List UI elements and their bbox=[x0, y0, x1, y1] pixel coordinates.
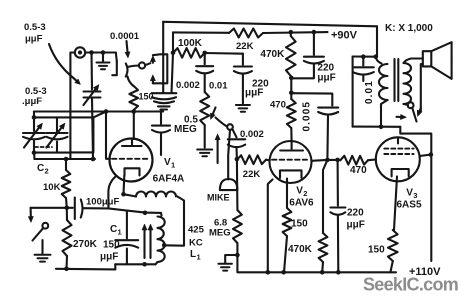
notch to grid bus bbox=[93, 112, 106, 118]
node dot primary bottom bbox=[379, 125, 384, 130]
label 220 (V2 out) bbox=[347, 208, 364, 219]
label 22K (V2 grid) bbox=[243, 169, 261, 180]
rail B drop to 100K bbox=[172, 32, 174, 52]
capacitor 220uuF (V2 out) bbox=[330, 160, 345, 272]
mike annotation arrow bbox=[215, 134, 220, 163]
trimmer arrow 2 bbox=[150, 75, 155, 84]
svg-text:MEG: MEG bbox=[174, 124, 197, 135]
svg-text:1: 1 bbox=[118, 228, 122, 237]
node dot grid bus left bbox=[104, 109, 109, 114]
svg-text:470K: 470K bbox=[260, 49, 285, 60]
xfmr core bbox=[395, 59, 399, 101]
svg-text:150: 150 bbox=[291, 219, 308, 230]
label uuF (decoup) bbox=[317, 73, 335, 84]
rail y111 (grid bus) bbox=[34, 110, 163, 112]
key jack ground bbox=[35, 240, 51, 262]
resistor 270K bbox=[63, 208, 72, 269]
capacitor 220uuF (decoup) bbox=[291, 32, 324, 78]
node dot tank bottom bbox=[142, 262, 147, 267]
label 425 bbox=[188, 225, 205, 236]
wire between out dots bbox=[327, 159, 337, 161]
speaker return wire bbox=[421, 64, 423, 112]
capacitor 100uuF bbox=[67, 198, 109, 220]
resistor 22K (V2 grid) bbox=[237, 155, 270, 164]
main ground rail bbox=[237, 255, 396, 272]
node dot on C2 rail 2 bbox=[91, 157, 96, 162]
label 6.8 bbox=[214, 218, 227, 229]
B+ feed wire bbox=[400, 127, 431, 261]
svg-text:470: 470 bbox=[270, 100, 286, 111]
svg-text:0.0001: 0.0001 bbox=[110, 31, 140, 42]
capacitor 0.005 bbox=[291, 93, 338, 160]
watermark SeekIC.com bbox=[363, 275, 458, 295]
resistor 150 (V2) bbox=[283, 179, 292, 273]
V3 grid dashes row2 bbox=[384, 153, 413, 155]
resistor 150 (V3) bbox=[388, 230, 398, 272]
V1 plate lead bbox=[133, 112, 135, 140]
node dot 270K top bbox=[65, 206, 70, 211]
L1 tap wire bbox=[164, 197, 184, 246]
resistor 470 (V2 plate) bbox=[287, 93, 296, 142]
variable capacitor 0.5-3 arrow bbox=[84, 85, 100, 106]
variable capacitor 0.5-3 top lead bbox=[90, 53, 93, 90]
svg-text:V: V bbox=[296, 186, 303, 197]
node dot V3 plate bbox=[429, 152, 434, 157]
label 10K bbox=[43, 182, 61, 193]
svg-text:μμF: μμF bbox=[317, 73, 335, 84]
label K: X 1,000 bbox=[385, 23, 433, 34]
label 470 (V3 grid) bbox=[350, 165, 367, 176]
key jack arm bbox=[28, 208, 33, 223]
label MIKE bbox=[207, 193, 230, 203]
rail B right bbox=[263, 31, 328, 34]
wire jack to node bbox=[85, 51, 116, 53]
V3 cathode lead bbox=[394, 176, 397, 230]
svg-text:0.01: 0.01 bbox=[209, 81, 228, 92]
resistor 470K (V2 out) bbox=[319, 160, 328, 272]
svg-text:100μμF: 100μμF bbox=[86, 197, 119, 208]
node dot xfmr 2 bbox=[374, 54, 379, 59]
terminal circle bbox=[139, 62, 145, 68]
node dot 0.005 branch bbox=[289, 91, 294, 96]
node dot C2 top bbox=[32, 115, 37, 120]
label C2 bbox=[37, 163, 49, 176]
label 220 (screen) bbox=[252, 79, 269, 90]
node dot diode return bbox=[266, 270, 271, 275]
label 270K bbox=[73, 239, 98, 250]
capacitor 0.01 (output) bbox=[353, 57, 374, 81]
label +110V bbox=[409, 266, 441, 278]
node dot V2 out 2 bbox=[335, 158, 340, 163]
transformer top wire bbox=[353, 55, 376, 57]
C2 top wire bbox=[34, 116, 70, 118]
label 0.002 (osc) bbox=[176, 80, 200, 91]
svg-text:C: C bbox=[110, 224, 117, 235]
svg-text:1: 1 bbox=[171, 161, 175, 170]
switch contact circle bbox=[404, 102, 414, 108]
svg-text:2: 2 bbox=[45, 167, 49, 176]
label 470K (V2 out) bbox=[288, 244, 313, 255]
svg-text:MEG: MEG bbox=[209, 228, 231, 239]
V1 grid dashes bbox=[112, 158, 148, 160]
label MEG (6.8) bbox=[209, 228, 231, 239]
svg-text:L: L bbox=[190, 249, 196, 260]
microphone wire bbox=[228, 130, 230, 180]
node dot on C2 rail 1 bbox=[64, 157, 69, 162]
label V1 bbox=[164, 157, 175, 170]
core arrow 1 bbox=[142, 224, 147, 258]
node dot L1 tap bbox=[162, 243, 167, 248]
inner box bbox=[70, 117, 93, 152]
tube V3 envelope bbox=[376, 137, 420, 181]
svg-text:+90V: +90V bbox=[331, 30, 358, 42]
speaker bbox=[423, 42, 452, 79]
svg-text:V: V bbox=[406, 188, 413, 199]
node dot 100K left bbox=[171, 51, 176, 56]
svg-text:10K: 10K bbox=[43, 182, 61, 193]
label KC bbox=[189, 238, 203, 249]
feedback coil bbox=[124, 192, 177, 197]
label V3 bbox=[406, 188, 417, 201]
svg-text:KC: KC bbox=[189, 238, 203, 249]
V1 cathode lead bbox=[122, 176, 125, 195]
switch arrow right bbox=[417, 108, 422, 117]
svg-text:0.002: 0.002 bbox=[176, 80, 200, 91]
label 150 (V3) bbox=[368, 245, 385, 256]
svg-text:470K: 470K bbox=[288, 244, 313, 255]
C2 dashed link bbox=[35, 146, 52, 148]
resistor 6.8 MEG bbox=[233, 159, 242, 255]
label 100uuF bbox=[86, 197, 119, 208]
svg-text:150: 150 bbox=[103, 240, 120, 251]
wire V2 plate out bbox=[312, 159, 328, 162]
svg-text:.μμF: .μμF bbox=[22, 96, 42, 107]
label 150 (osc) bbox=[139, 91, 154, 101]
potentiometer 0.5 MEG bbox=[200, 92, 209, 148]
svg-text:470: 470 bbox=[350, 165, 367, 176]
node dot tank top bbox=[143, 211, 148, 216]
inductor L1 winding bbox=[156, 213, 165, 264]
label C1 bbox=[110, 224, 122, 237]
C2 bottom wire bbox=[34, 152, 70, 154]
node dot rail B 220 bbox=[312, 30, 317, 35]
capacitor at plate bus bbox=[152, 112, 170, 156]
bottom rail of C2 box bbox=[34, 153, 95, 159]
lead 0.0001 junction bbox=[172, 53, 174, 93]
node dot rail B 470K bbox=[289, 30, 294, 35]
wiper wire to terminal bbox=[216, 118, 227, 127]
capacitor 0.01 (V1) bbox=[196, 53, 213, 92]
V2 grid dashes bbox=[272, 159, 307, 161]
svg-text:0.01: 0.01 bbox=[364, 80, 375, 104]
label 470 (V2 plate) bbox=[270, 100, 286, 111]
label 0.5 bbox=[184, 115, 198, 126]
tube V2 envelope bbox=[270, 141, 312, 183]
capacitor C1 150uuF bbox=[115, 211, 138, 264]
node dot cathode bbox=[121, 192, 126, 197]
C2 trimmer b bbox=[47, 117, 68, 152]
key jack contact circle bbox=[42, 223, 48, 229]
node dot 470K bottom bbox=[289, 76, 294, 81]
label 22K bbox=[236, 41, 254, 52]
C2 box left edge bbox=[33, 112, 35, 153]
tank bottom wire bbox=[115, 263, 155, 265]
variable capacitor 0.5-3 plates bbox=[84, 92, 101, 98]
output left wire bbox=[352, 57, 354, 127]
rail A (B+ top) bbox=[163, 22, 377, 27]
wire jack left bbox=[70, 53, 74, 160]
svg-text:0.005: 0.005 bbox=[302, 101, 313, 132]
C2 trimmer a bbox=[23, 123, 45, 148]
svg-text:1: 1 bbox=[197, 253, 201, 262]
switch blade bbox=[412, 108, 416, 122]
V3 cathode bbox=[392, 169, 409, 176]
wire 100uuF to tank bbox=[108, 208, 161, 213]
label 0.002 (V2 grid) bbox=[240, 129, 264, 140]
svg-text:220: 220 bbox=[347, 208, 364, 219]
wiper terminal circle bbox=[227, 124, 233, 130]
label 220 (decoup) bbox=[317, 63, 334, 74]
wire key node bbox=[31, 207, 67, 209]
label L1 bbox=[190, 249, 201, 262]
svg-text:MIKE: MIKE bbox=[207, 193, 230, 203]
node dot 220-3 bottom bbox=[336, 270, 341, 275]
switch arrow left bbox=[397, 114, 407, 119]
label 0.0001 bbox=[110, 31, 140, 42]
svg-text:6AS5: 6AS5 bbox=[397, 200, 422, 211]
V1 cathode bbox=[125, 168, 140, 175]
left ground rail bbox=[56, 264, 115, 269]
resistor 470K (plate) bbox=[286, 32, 296, 78]
mike ground bbox=[218, 255, 237, 271]
V1 grid lead bbox=[106, 112, 110, 159]
node dot V2 out 1 bbox=[325, 158, 330, 163]
xfmr secondary bbox=[404, 59, 423, 105]
svg-text:6AF4A: 6AF4A bbox=[153, 174, 185, 185]
variable capacitor 0.5-3 bottom lead bbox=[92, 98, 93, 160]
node dot C2 bottom bbox=[32, 150, 37, 155]
xfmr bottom rail bbox=[353, 126, 401, 128]
label 0.005 bbox=[302, 101, 313, 132]
wire terminal to arrow1 bbox=[145, 63, 150, 65]
capacitor 0.002 (osc) bbox=[152, 93, 177, 109]
svg-text:0.002: 0.002 bbox=[240, 129, 264, 140]
V2 plate bbox=[280, 142, 303, 151]
svg-text:6AV6: 6AV6 bbox=[289, 198, 314, 209]
wire 470K to 470 bbox=[290, 78, 292, 93]
ground at jack bbox=[97, 53, 110, 70]
label 0.5-3 uuF lower bbox=[22, 86, 47, 107]
resistor 150 (osc) bbox=[128, 77, 139, 112]
node dot 270K bottom bbox=[64, 267, 69, 272]
wire 100K to 220uuF bbox=[205, 52, 243, 55]
key jack blade bbox=[33, 228, 44, 240]
label 150 (V2) bbox=[291, 219, 308, 230]
node dot 100K right bbox=[202, 51, 207, 56]
label 470K (plate) bbox=[260, 49, 285, 60]
node dot xfmr 1 bbox=[361, 54, 366, 59]
label V2 bbox=[296, 186, 307, 199]
svg-text:μμF: μμF bbox=[245, 88, 263, 99]
rail A drop to xfmr bbox=[376, 26, 378, 56]
V1 plate bbox=[122, 139, 142, 146]
svg-text:0.5-3: 0.5-3 bbox=[24, 22, 46, 33]
tube V1 envelope bbox=[110, 139, 153, 182]
svg-text:μμF: μμF bbox=[100, 252, 118, 263]
ground 0.5 MEG bbox=[197, 150, 212, 157]
svg-text:270K: 270K bbox=[73, 239, 98, 250]
svg-text:SeekIC.com: SeekIC.com bbox=[363, 275, 458, 295]
node dot gnd branch bbox=[235, 253, 240, 258]
capacitor 0.0001 bbox=[112, 53, 127, 77]
label +90V bbox=[331, 30, 358, 42]
wire cap to terminal bbox=[127, 66, 139, 68]
label MEG bbox=[174, 124, 197, 135]
node dot A1 bbox=[89, 50, 94, 55]
label 100K bbox=[178, 38, 203, 49]
svg-text:100K: 100K bbox=[178, 38, 203, 49]
resistor 22K (rail B) bbox=[229, 29, 263, 38]
node dot 150 V2 bbox=[281, 270, 286, 275]
svg-text:μμF: μμF bbox=[25, 34, 43, 45]
svg-text:V: V bbox=[164, 157, 171, 168]
antenna jack J1 bbox=[75, 47, 85, 57]
node dot plate bus bbox=[132, 109, 137, 114]
svg-text:22K: 22K bbox=[236, 41, 254, 52]
xfmr primary bbox=[376, 57, 388, 127]
rail B bbox=[173, 31, 229, 33]
V3 plate wire bbox=[420, 155, 431, 156]
rail A left drop bbox=[162, 22, 164, 93]
V3 plate bbox=[397, 138, 399, 144]
V1 grid return curve bbox=[108, 177, 115, 209]
resistor 100K bbox=[173, 48, 205, 58]
label 0.01 (V1) bbox=[209, 81, 228, 92]
capacitor 0.002 (V2 grid) bbox=[228, 129, 245, 159]
pot wiper arrow bbox=[210, 108, 215, 120]
annotation arrow to antenna trimmer bbox=[49, 44, 81, 85]
capacitor 220uuF (screen) bbox=[234, 54, 252, 104]
node dot 22K-2 left bbox=[235, 157, 240, 162]
microphone MIKE bbox=[220, 179, 238, 190]
label uuF (V2 out) bbox=[347, 220, 365, 231]
label 0.5-3 uuF (antenna trimmer) bbox=[24, 22, 46, 45]
label uuF (screen) bbox=[245, 88, 263, 99]
trimmer arrow 1 bbox=[150, 56, 155, 63]
label 6AS5 bbox=[397, 200, 422, 211]
label 6AV6 bbox=[289, 198, 314, 209]
label 6AF4A bbox=[153, 174, 185, 185]
resistor 470 (V3 grid) bbox=[340, 156, 376, 165]
svg-text:μμF: μμF bbox=[347, 220, 365, 231]
V2 diode return bbox=[268, 180, 273, 273]
svg-text:C: C bbox=[37, 163, 44, 174]
resistor 10K bbox=[62, 159, 71, 208]
svg-text:425: 425 bbox=[188, 225, 205, 236]
annotation arrow 0.0001 bbox=[125, 41, 130, 58]
svg-text:150: 150 bbox=[368, 245, 385, 256]
node dot A2 bbox=[101, 50, 106, 55]
V3 grid dashes row1 bbox=[384, 148, 413, 150]
node dot 470K-2 bottom bbox=[320, 270, 325, 275]
feedback loop wire bbox=[153, 54, 167, 83]
svg-text:K: X 1,000: K: X 1,000 bbox=[385, 23, 433, 34]
svg-text:22K: 22K bbox=[243, 169, 261, 180]
ground 220uuF screen bbox=[236, 105, 250, 112]
label uuF (C1) bbox=[100, 252, 118, 263]
label 0.01 (output) bbox=[364, 80, 375, 104]
svg-text:3: 3 bbox=[413, 191, 417, 200]
V2 cathode bbox=[280, 170, 302, 178]
core arrow 2 bbox=[148, 224, 153, 258]
label 150 (C1) bbox=[103, 240, 120, 251]
